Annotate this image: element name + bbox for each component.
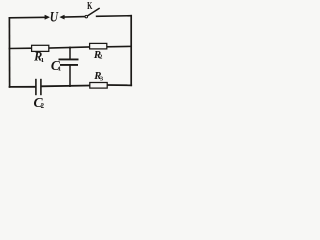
wire C1 bottom stub [69,65,71,86]
label C2 [34,95,45,110]
svg-text:2: 2 [99,54,102,61]
switch K blade [88,8,99,15]
resistor R1 [32,45,49,51]
label R3 [93,70,103,83]
wire middle rail left (left rail to R1) [9,47,31,49]
switch K pivot contact circle [85,15,88,18]
wire bottom rail C2 to R3 [42,85,90,88]
wire middle rail R1 to R2 [49,47,90,48]
label R2 [93,49,102,61]
capacitor C2 right plate [40,79,42,95]
capacitor C1 bottom plate [60,64,78,66]
wire bottom rail left (to C2) [10,86,36,88]
capacitor C2 left plate [35,79,37,95]
wire top rail right segment (switch to right rail) [97,15,132,18]
svg-text:U: U [50,9,59,25]
wire right rail [130,16,132,86]
voltage arrow pointing right at U [45,15,50,19]
wire C1 top stub [69,48,71,60]
node junction of C1 with bottom rail [69,85,71,87]
svg-text:3: 3 [100,76,103,83]
wire top rail segment U to switch [63,16,84,18]
wire bottom rail right of R3 [107,84,131,86]
resistor R3 [90,83,107,89]
svg-text:1: 1 [58,65,61,72]
svg-text:K: K [87,1,92,12]
label R1 [33,50,44,64]
svg-text:2: 2 [41,103,45,110]
wire top rail left segment (to arrow) [9,16,45,19]
svg-text:1: 1 [41,57,44,64]
resistor R2 [90,43,107,49]
switch label K [87,1,92,12]
wire left rail [8,18,10,87]
voltage label U [50,9,59,25]
wire middle rail right of R2 [107,45,131,47]
node junction of C1 with middle rail [69,47,71,49]
voltage arrow pointing left at U [60,15,65,19]
capacitor C1 top plate [59,58,79,60]
label C1 [51,58,61,73]
